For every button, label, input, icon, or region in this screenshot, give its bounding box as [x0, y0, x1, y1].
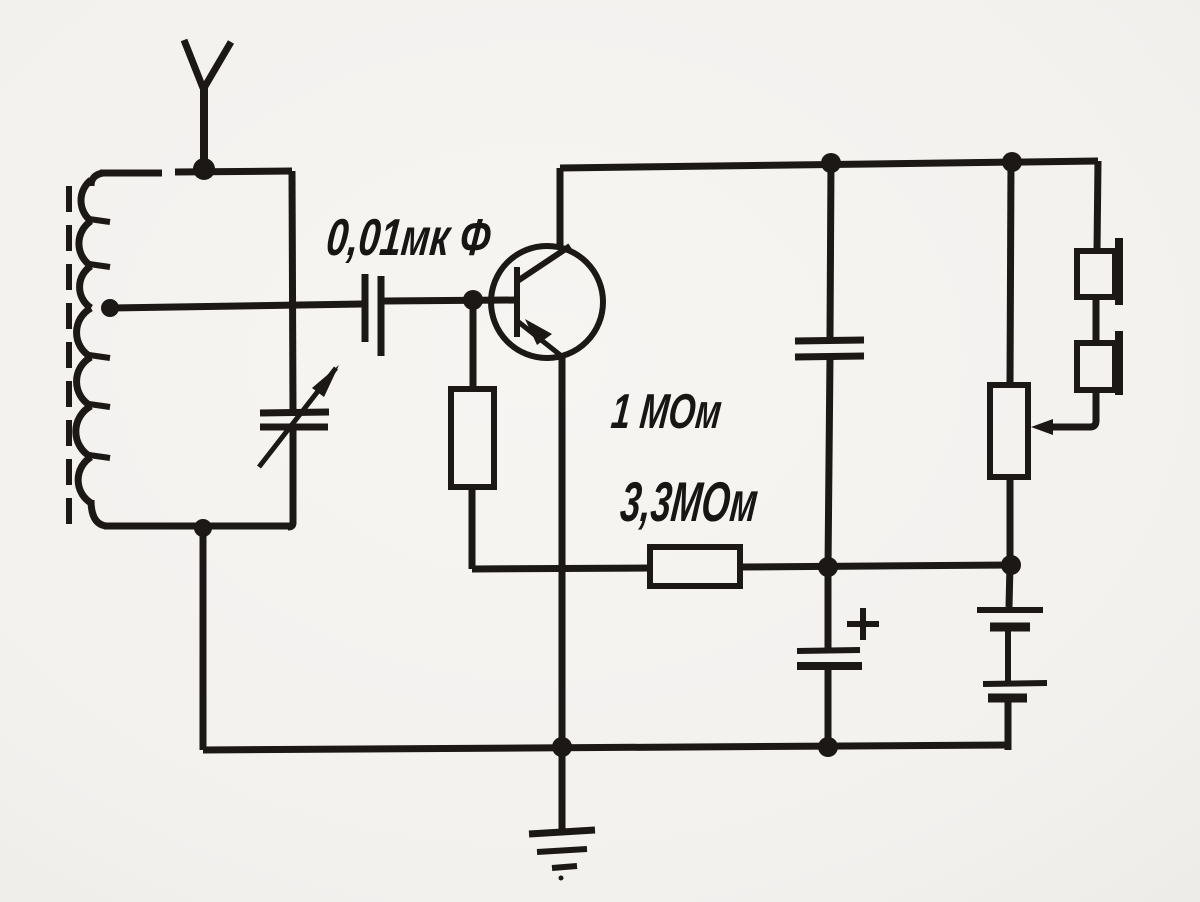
- label R1 value: [609, 384, 724, 438]
- wire coil top (with scan gap): [100, 171, 292, 173]
- junction top rail / C3: [821, 153, 841, 173]
- earphone BF2: [1077, 331, 1119, 395]
- resistor R2: [650, 547, 740, 586]
- wire capacitor to base: [384, 300, 517, 301]
- junction coil tap: [101, 299, 119, 317]
- wire tank right side upper: [292, 171, 293, 411]
- wire tank right side lower: [288, 429, 293, 527]
- wire tank bottom: [104, 523, 293, 530]
- wire top rail: [560, 161, 1098, 168]
- capacitor C4 electrolytic: [797, 608, 879, 666]
- junction antenna to coil top: [193, 158, 215, 180]
- capacitor C2 plates: [365, 274, 381, 356]
- wire collector riser: [557, 168, 564, 247]
- wire pot to battery: [1007, 477, 1014, 565]
- wire left drop to bottom rail: [200, 528, 207, 750]
- wire C3 top: [830, 161, 831, 337]
- junction base node: [463, 290, 483, 310]
- wiper arrow: [1031, 419, 1053, 435]
- svg-text:1 МОм: 1 МОм: [609, 384, 724, 438]
- junction top rail / pot: [1002, 152, 1022, 172]
- battery GB1: [977, 565, 1047, 750]
- junction bias/battery: [1001, 555, 1021, 575]
- antenna W1: [184, 40, 231, 168]
- ground: [529, 748, 595, 881]
- wire earphone branch top: [1097, 161, 1098, 251]
- svg-text:0,01мк Ф: 0,01мк Ф: [324, 207, 494, 266]
- transistor VT1: [491, 246, 603, 358]
- wire between earphones: [1093, 297, 1100, 343]
- svg-text:3,3МОм: 3,3МОм: [618, 471, 761, 534]
- junction bottom rail / C4: [818, 737, 838, 757]
- label C2 value: [324, 207, 494, 266]
- ferrite rod (dashed): [66, 186, 72, 524]
- earphone BF1: [1077, 238, 1119, 305]
- wire C4 top: [825, 567, 832, 648]
- junction bottom rail / emitter: [552, 737, 572, 757]
- wire earphones to wiper: [1048, 390, 1096, 427]
- junction bias/C4: [818, 557, 838, 577]
- potentiometer R3: [990, 385, 1028, 477]
- inductor L1 (coil with taps): [76, 173, 110, 526]
- wire bias rail left: [472, 568, 650, 569]
- label R2 value: [618, 471, 761, 534]
- wire emitter riser: [559, 356, 566, 747]
- variable capacitor C1: [259, 365, 339, 467]
- wire pot drop: [1010, 161, 1011, 385]
- wire C4 bottom: [825, 668, 832, 747]
- wire C3 bottom: [828, 357, 830, 567]
- resistor R1: [451, 389, 494, 487]
- wire coil tap to capacitor: [110, 304, 362, 308]
- wire R1 to bias rail: [469, 487, 476, 569]
- wire base node down to R1: [470, 300, 477, 389]
- capacitor C3: [795, 340, 864, 357]
- wire bias rail right: [740, 565, 1011, 567]
- junction tank bottom: [194, 519, 212, 537]
- wire bottom rail: [203, 745, 1008, 750]
